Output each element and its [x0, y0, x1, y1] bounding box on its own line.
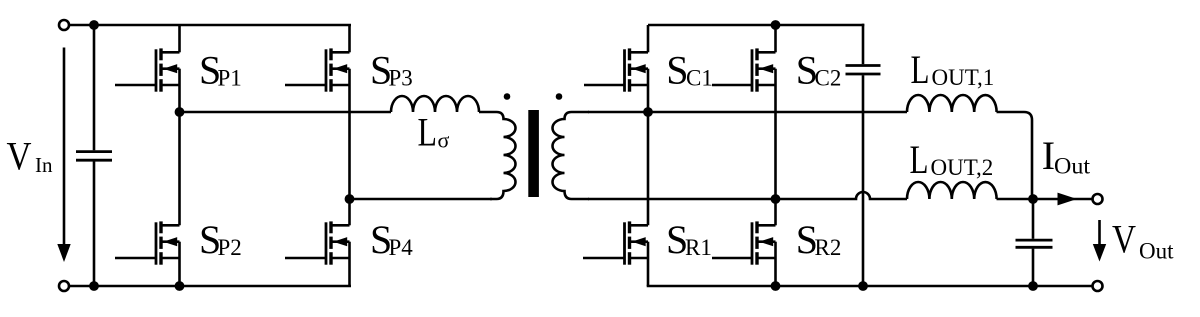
junction S_C2 source / S_R2 drain / X2: [771, 194, 781, 204]
label S_R2: [796, 217, 842, 262]
svg-text:V: V: [1112, 217, 1136, 262]
svg-text:R2: R2: [815, 235, 842, 260]
terminal output -: [1093, 281, 1103, 291]
inductor L_sigma: [391, 96, 479, 112]
primary phase dot: [504, 93, 511, 100]
svg-text:C2: C2: [815, 66, 842, 91]
label S_P1: [199, 48, 242, 93]
svg-text:P1: P1: [218, 66, 242, 91]
svg-text:C1: C1: [686, 66, 713, 91]
junction S_C1 source / X1: [643, 107, 653, 117]
label S_C1: [666, 48, 713, 93]
junction S_C2 drain / top rail: [771, 20, 781, 30]
svg-text:P3: P3: [389, 66, 413, 91]
capacitor C_clamp: [846, 24, 881, 286]
label S_R1: [666, 217, 712, 262]
inductor L_OUT,2: [907, 182, 997, 199]
label S_C2: [796, 48, 842, 93]
junction clamp branch / bottom rail: [858, 281, 868, 291]
wire L_OUT,2 to output node: [997, 198, 1034, 201]
label V_Out: [1112, 217, 1174, 264]
junction C_out / bottom rail: [1028, 281, 1038, 291]
transistor S_R2: [712, 199, 776, 286]
secondary phase dot: [556, 93, 563, 100]
svg-text:Out: Out: [1139, 239, 1174, 264]
junction S_R2 source / bottom rail: [771, 281, 781, 291]
svg-text:OUT,2: OUT,2: [931, 155, 994, 180]
wire top rail left: [69, 24, 351, 27]
transistor S_P1: [115, 25, 180, 112]
capacitor C_out: [1016, 199, 1053, 286]
svg-text:L: L: [910, 137, 929, 182]
svg-text:σ: σ: [438, 128, 450, 153]
svg-text:L: L: [418, 110, 438, 155]
label L_sigma: [418, 110, 450, 155]
capacitor C_in: [76, 25, 112, 286]
svg-text:P2: P2: [218, 235, 242, 260]
junction bottom rail / C_in: [89, 281, 99, 291]
terminal output +: [1093, 194, 1103, 204]
output node: [1028, 194, 1038, 204]
wire bottom rail left: [69, 285, 351, 288]
svg-text:OUT,1: OUT,1: [932, 65, 995, 90]
wire output node to terminal with I_Out arrow: [1033, 193, 1093, 206]
transformer core: [528, 110, 539, 197]
transistor S_P3: [285, 25, 350, 199]
wire node B to primary winding: [350, 198, 493, 201]
junction S_P2 source / bottom rail: [175, 281, 185, 291]
label L_OUT,1: [911, 47, 995, 92]
svg-text:Out: Out: [1054, 154, 1091, 179]
transistor S_C1: [584, 25, 648, 112]
node A (S_P1/S_P2 midpoint): [175, 107, 185, 117]
wire L_OUT,1 to output node: [997, 112, 1033, 199]
wire bottom rail right: [647, 285, 1093, 288]
svg-text:In: In: [35, 153, 53, 177]
label S_P3: [370, 48, 413, 93]
svg-text:P4: P4: [389, 235, 414, 260]
inductor L_OUT,1: [907, 95, 997, 112]
label L_OUT,2: [910, 137, 994, 182]
node B (S_P3/S_P4 midpoint): [345, 194, 355, 204]
svg-text:V: V: [7, 134, 32, 179]
junction top rail / C_in: [89, 20, 99, 30]
wire top rail right: [648, 24, 864, 27]
label S_P4: [370, 217, 413, 262]
svg-text:R1: R1: [685, 235, 712, 260]
V_In polarity arrow: [57, 48, 70, 263]
terminal input + (top-left): [59, 20, 69, 30]
transistor S_P4: [285, 199, 350, 286]
transformer primary winding: [479, 112, 516, 199]
wire node A to L_sigma: [180, 111, 392, 114]
V_Out arrow: [1093, 220, 1106, 262]
transistor S_C2: [712, 25, 776, 199]
wire secondary top (node X1): [588, 111, 907, 114]
svg-text:L: L: [911, 47, 930, 92]
wire secondary bottom (node X2) with hop over clamp branch: [588, 192, 907, 199]
terminal input - (bottom-left): [59, 281, 69, 291]
transistor S_R1: [583, 112, 648, 286]
transformer secondary winding: [553, 112, 590, 199]
transistor S_P2: [115, 112, 180, 286]
label I_Out: [1042, 133, 1091, 179]
label V_In: [7, 134, 53, 179]
label S_P2: [199, 217, 242, 262]
